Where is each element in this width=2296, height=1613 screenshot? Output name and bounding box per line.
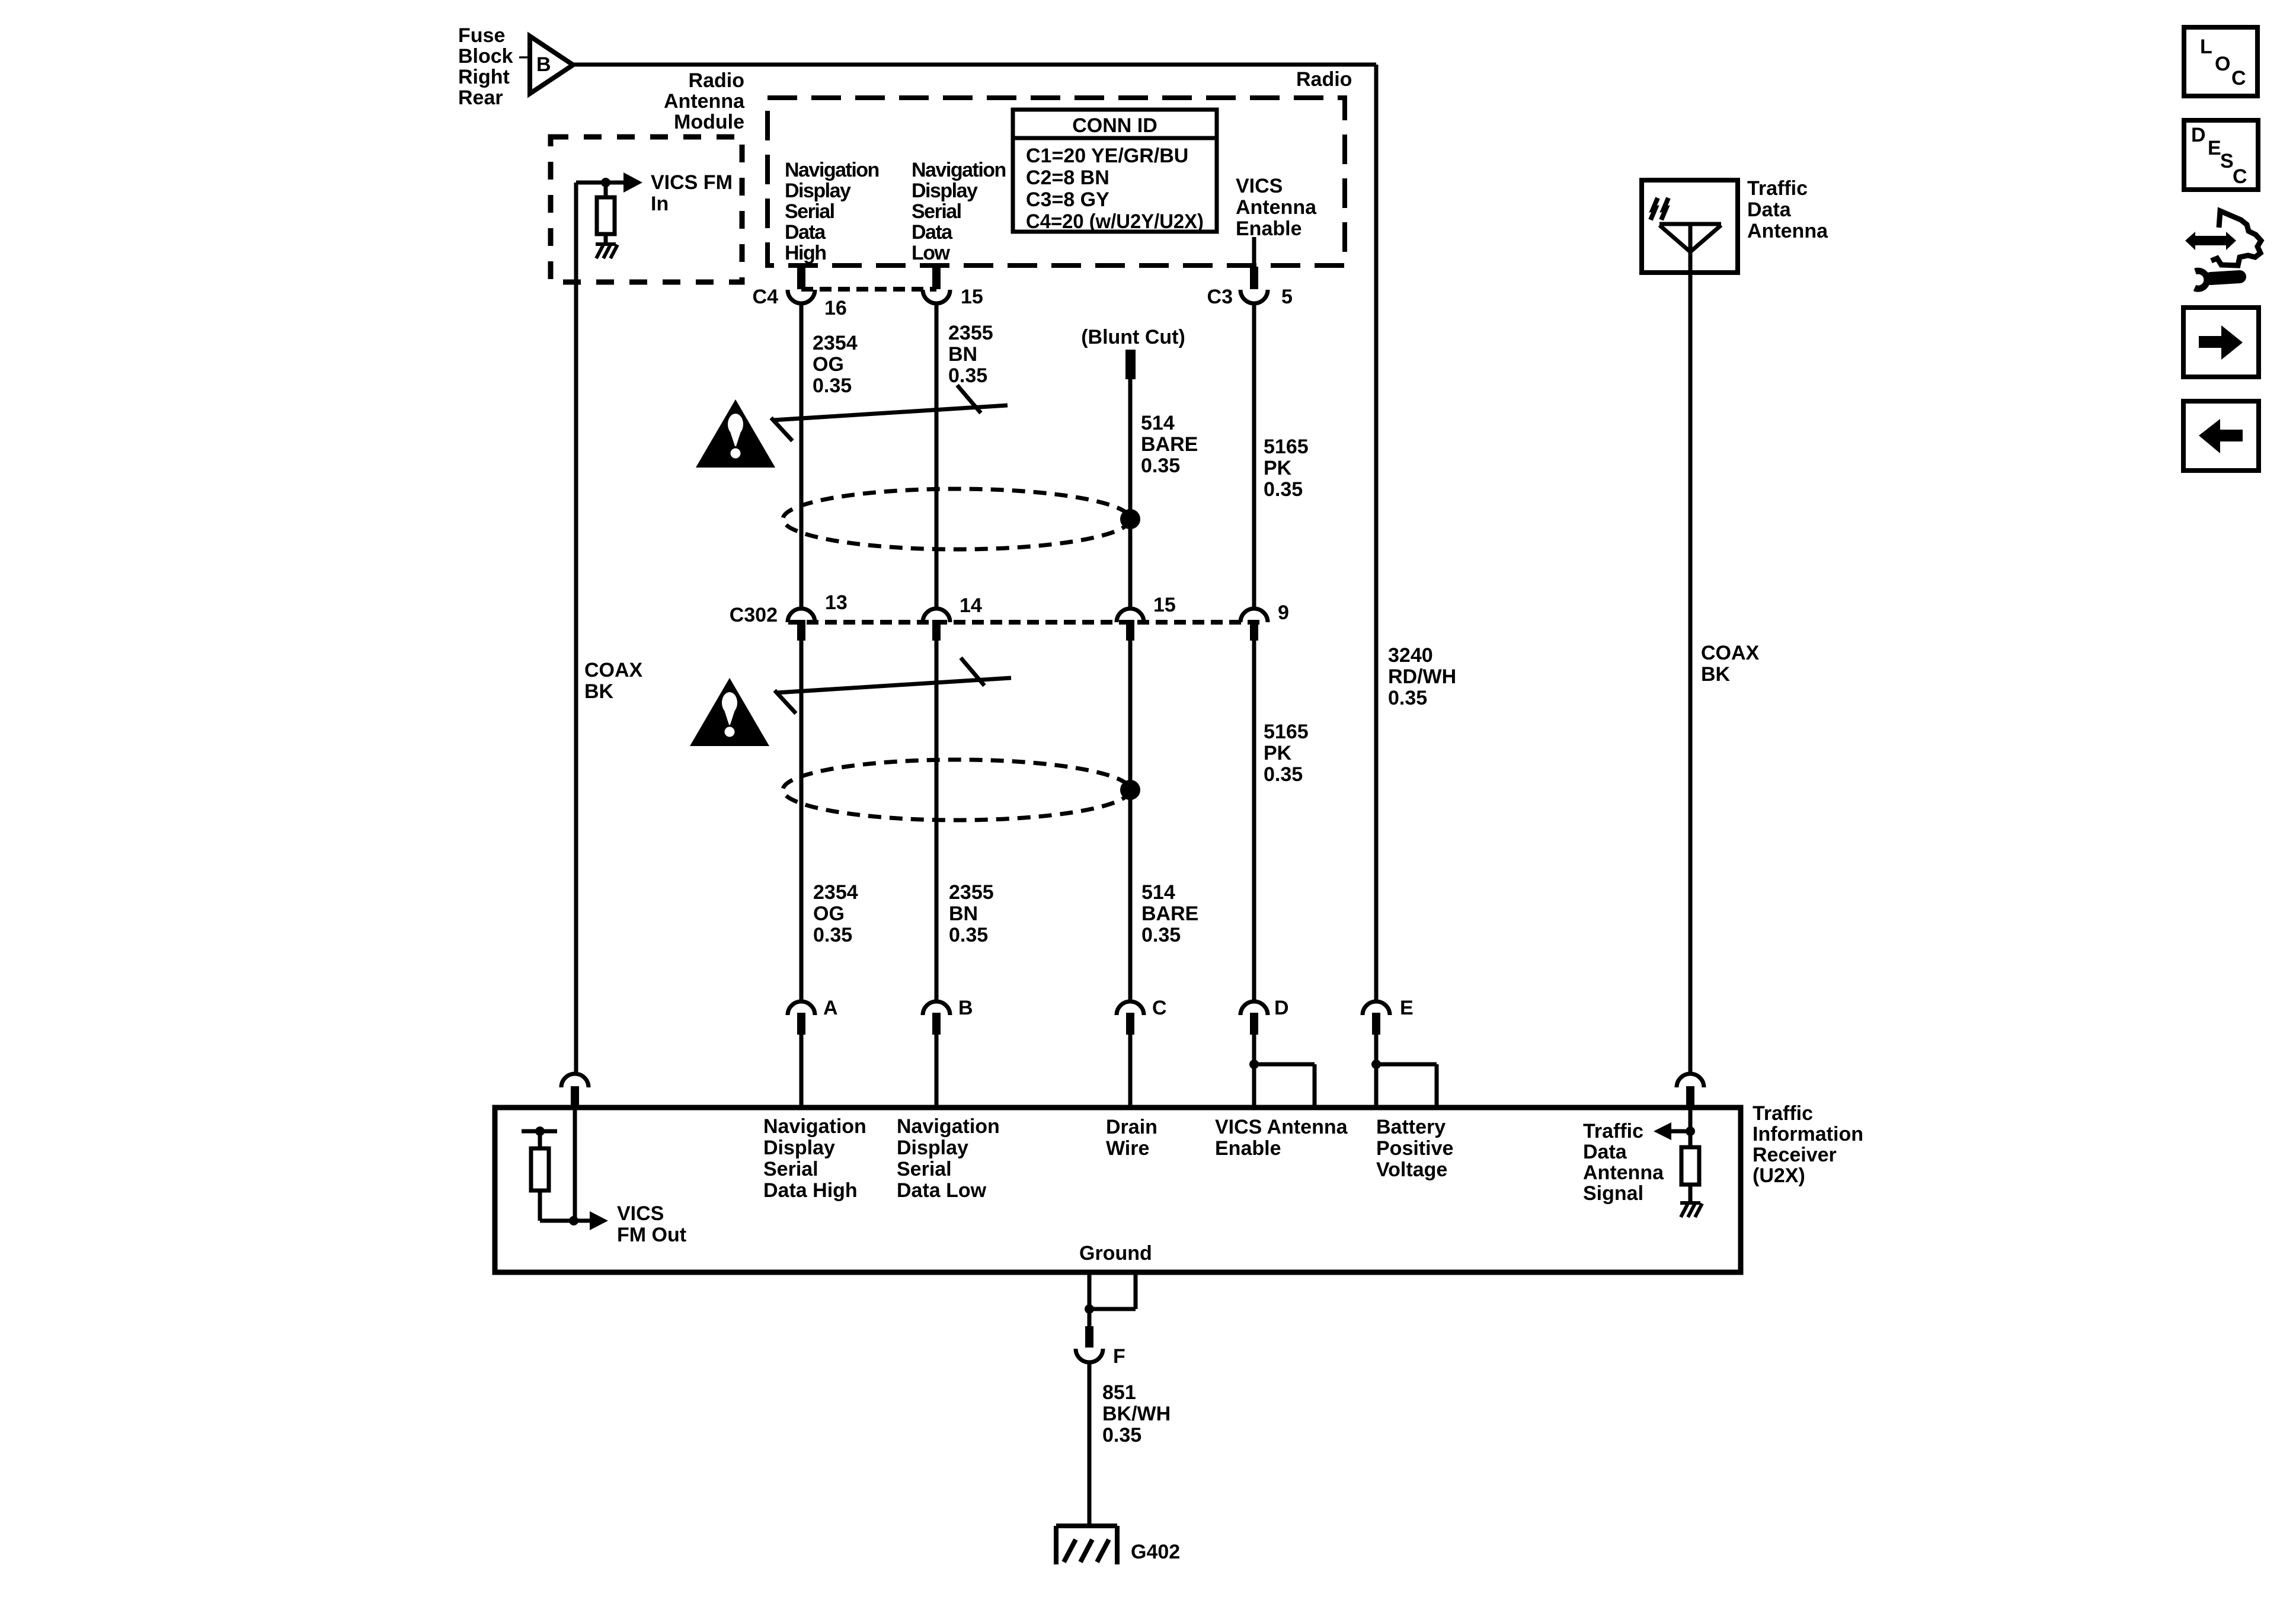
svg-text:0.35: 0.35 [813, 924, 852, 946]
svg-text:Voltage: Voltage [1376, 1158, 1447, 1181]
svg-text:Fuse: Fuse [458, 24, 505, 47]
svg-text:C4=20 (w/U2Y/U2X): C4=20 (w/U2Y/U2X) [1026, 210, 1204, 233]
svg-text:Data: Data [912, 221, 953, 244]
svg-text:Antenna: Antenna [664, 90, 745, 113]
svg-text:5: 5 [1281, 286, 1293, 308]
svg-text:B: B [958, 997, 973, 1019]
svg-text:BN: BN [948, 343, 977, 366]
svg-text:Antenna: Antenna [1583, 1161, 1664, 1184]
svg-text:BARE: BARE [1141, 433, 1198, 456]
svg-text:C: C [2231, 67, 2246, 89]
svg-text:16: 16 [824, 297, 847, 319]
svg-text:Rear: Rear [458, 87, 503, 109]
svg-text:Ground: Ground [1079, 1242, 1152, 1265]
svg-text:Antenna: Antenna [1747, 220, 1828, 242]
svg-text:D: D [1274, 997, 1289, 1019]
svg-text:Navigation: Navigation [912, 159, 1006, 181]
svg-text:BK: BK [1701, 663, 1731, 686]
svg-text:Serial: Serial [912, 200, 961, 223]
svg-text:5165: 5165 [1264, 436, 1309, 458]
svg-text:VICS: VICS [617, 1202, 664, 1225]
svg-text:E: E [2208, 137, 2221, 159]
svg-text:13: 13 [825, 591, 848, 614]
svg-text:BK: BK [584, 680, 614, 703]
svg-text:In: In [651, 193, 669, 215]
svg-text:CONN ID: CONN ID [1072, 114, 1157, 137]
svg-text:L: L [2200, 36, 2212, 58]
svg-text:Drain: Drain [1106, 1116, 1157, 1138]
svg-text:C1=20 YE/GR/BU: C1=20 YE/GR/BU [1026, 145, 1188, 167]
svg-text:C: C [1152, 997, 1167, 1019]
svg-text:(Blunt Cut): (Blunt Cut) [1081, 326, 1185, 348]
svg-text:Enable: Enable [1236, 217, 1302, 240]
svg-text:0.35: 0.35 [1264, 478, 1303, 501]
svg-text:Radio: Radio [1296, 68, 1352, 91]
svg-text:514: 514 [1141, 412, 1175, 434]
svg-text:C2=8 BN: C2=8 BN [1026, 167, 1109, 189]
svg-text:Positive: Positive [1376, 1137, 1453, 1160]
svg-text:Navigation: Navigation [763, 1115, 866, 1138]
svg-text:Data: Data [785, 221, 826, 244]
svg-text:15: 15 [1153, 594, 1176, 616]
svg-text:D: D [2191, 124, 2206, 146]
svg-text:B: B [536, 53, 551, 76]
svg-text:VICS FM: VICS FM [651, 171, 733, 194]
svg-text:3240: 3240 [1388, 644, 1433, 667]
svg-text:Navigation: Navigation [897, 1115, 1000, 1138]
svg-text:C: C [2233, 165, 2247, 188]
svg-text:FM Out: FM Out [617, 1224, 686, 1246]
svg-text:PK: PK [1264, 742, 1292, 764]
svg-text:COAX: COAX [584, 659, 643, 681]
svg-text:OG: OG [813, 353, 844, 376]
svg-text:RD/WH: RD/WH [1388, 665, 1456, 688]
svg-text:Navigation: Navigation [785, 159, 879, 181]
svg-text:0.35: 0.35 [1388, 687, 1427, 709]
svg-text:2355: 2355 [949, 881, 994, 904]
svg-text:2355: 2355 [948, 322, 993, 344]
svg-text:Antenna: Antenna [1236, 196, 1317, 219]
svg-text:Data Low: Data Low [897, 1179, 987, 1202]
svg-text:9: 9 [1278, 601, 1289, 624]
svg-text:E: E [1400, 997, 1414, 1019]
svg-text:VICS: VICS [1236, 175, 1283, 197]
svg-text:F: F [1113, 1345, 1125, 1368]
svg-text:Battery: Battery [1376, 1116, 1446, 1138]
svg-text:0.35: 0.35 [813, 375, 852, 397]
svg-text:BN: BN [949, 902, 978, 925]
svg-text:Information: Information [1753, 1123, 1863, 1145]
svg-text:PK: PK [1264, 457, 1292, 479]
svg-text:Traffic: Traffic [1747, 177, 1808, 200]
svg-text:C302: C302 [730, 604, 778, 626]
svg-text:C3=8 GY: C3=8 GY [1026, 188, 1109, 211]
svg-text:Radio: Radio [689, 69, 744, 92]
svg-text:Module: Module [674, 111, 744, 133]
svg-text:OG: OG [813, 902, 845, 925]
svg-text:Wire: Wire [1106, 1137, 1149, 1160]
svg-text:851: 851 [1102, 1381, 1136, 1404]
svg-text:BARE: BARE [1141, 902, 1198, 925]
svg-text:C3: C3 [1207, 286, 1233, 308]
svg-text:G402: G402 [1131, 1541, 1180, 1563]
svg-text:C4: C4 [753, 286, 779, 308]
svg-text:Enable: Enable [1215, 1137, 1281, 1160]
svg-text:Serial: Serial [897, 1158, 952, 1180]
svg-text:High: High [785, 242, 826, 264]
svg-text:514: 514 [1141, 881, 1175, 904]
svg-text:Traffic: Traffic [1583, 1120, 1643, 1142]
svg-text:5165: 5165 [1264, 721, 1309, 743]
svg-text:15: 15 [961, 286, 983, 308]
svg-text:0.35: 0.35 [949, 924, 988, 946]
svg-text:(U2X): (U2X) [1753, 1164, 1805, 1187]
svg-text:Data High: Data High [763, 1179, 858, 1202]
svg-text:Signal: Signal [1583, 1182, 1643, 1205]
svg-text:0.35: 0.35 [1102, 1424, 1141, 1446]
svg-text:Serial: Serial [763, 1158, 818, 1180]
svg-text:0.35: 0.35 [1141, 924, 1181, 946]
svg-text:0.35: 0.35 [1141, 455, 1180, 477]
svg-text:0.35: 0.35 [1264, 763, 1303, 786]
svg-text:Right: Right [458, 66, 510, 88]
svg-text:2354: 2354 [813, 881, 858, 904]
svg-text:A: A [823, 997, 838, 1019]
svg-text:VICS Antenna: VICS Antenna [1215, 1116, 1348, 1138]
svg-text:Low: Low [912, 242, 951, 264]
svg-text:Display: Display [785, 180, 851, 202]
svg-text:Data: Data [1583, 1141, 1627, 1163]
svg-text:COAX: COAX [1701, 642, 1760, 664]
svg-text:0.35: 0.35 [948, 364, 987, 387]
svg-text:Traffic: Traffic [1753, 1102, 1813, 1125]
svg-text:Display: Display [912, 180, 978, 202]
svg-text:Display: Display [763, 1137, 835, 1159]
svg-text:Data: Data [1747, 199, 1792, 221]
svg-text:S: S [2220, 150, 2234, 172]
svg-text:O: O [2215, 53, 2230, 75]
svg-text:2354: 2354 [813, 332, 858, 354]
svg-text:Serial: Serial [785, 200, 834, 223]
svg-text:Block –: Block – [458, 45, 530, 68]
svg-text:Display: Display [897, 1137, 968, 1159]
svg-text:Receiver: Receiver [1753, 1144, 1837, 1166]
svg-text:BK/WH: BK/WH [1102, 1403, 1171, 1425]
svg-text:14: 14 [960, 594, 982, 617]
